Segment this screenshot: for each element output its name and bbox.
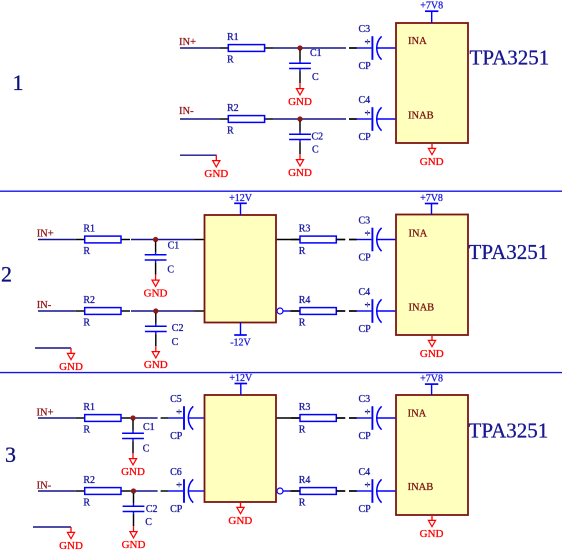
svg-text:IN+: IN+ — [37, 229, 54, 240]
svg-text:R1: R1 — [227, 32, 239, 43]
svg-text:IN-: IN- — [37, 481, 52, 492]
svg-text:R3: R3 — [299, 224, 311, 235]
svg-text:R1: R1 — [83, 224, 95, 235]
wire pin to C4 — [336, 490, 345, 492]
svg-text:TPA3251: TPA3251 — [469, 240, 549, 264]
svg-text:INAB: INAB — [409, 303, 435, 314]
wire IN- to R2 — [38, 310, 76, 312]
svg-text:R: R — [227, 55, 234, 66]
op-amp U1 TPA3251 — [396, 215, 468, 336]
capacitor C6 — [161, 467, 205, 515]
ground chip U1 — [420, 335, 444, 360]
svg-text:C: C — [143, 444, 150, 455]
svg-text:R4: R4 — [299, 295, 311, 306]
svg-text:CP: CP — [359, 431, 372, 442]
power +7V8 — [420, 374, 443, 395]
svg-text:C3: C3 — [359, 394, 371, 405]
capacitor C4 — [349, 467, 396, 515]
svg-text:GND: GND — [144, 359, 168, 371]
svg-text:C4: C4 — [359, 467, 371, 478]
pin buffer output A — [276, 417, 300, 419]
op-amp buffer U2 — [205, 215, 277, 323]
capacitor C4 — [349, 287, 396, 335]
svg-text:CP: CP — [359, 61, 372, 72]
ground input ground — [204, 155, 228, 180]
pin buffer input B — [195, 310, 205, 312]
svg-text:TPA3251: TPA3251 — [469, 418, 549, 442]
svg-text:GND: GND — [288, 167, 312, 179]
node IN+ filter junction — [297, 45, 302, 50]
power +12V — [229, 193, 253, 215]
svg-text:GND: GND — [122, 539, 146, 551]
op-amp U1 TPA3251 — [396, 395, 468, 515]
resistor R2 — [76, 295, 130, 329]
svg-text:GND: GND — [420, 156, 444, 168]
wire input ground stub — [180, 154, 217, 156]
ground under C1 — [121, 453, 145, 478]
svg-text:C3: C3 — [359, 216, 371, 227]
resistor R1 — [219, 32, 273, 66]
capacitor C4 — [349, 95, 396, 143]
svg-text:C4: C4 — [359, 95, 371, 106]
svg-text:CP: CP — [359, 504, 372, 515]
capacitor C2 — [123, 493, 158, 528]
svg-text:INAB: INAB — [408, 482, 434, 493]
svg-text:C: C — [312, 145, 319, 156]
ground input ground — [59, 527, 83, 551]
svg-text:C2: C2 — [146, 504, 158, 515]
wire IN+ to R1 — [38, 239, 76, 241]
ground under C2 — [288, 154, 312, 179]
wire pin to C4 — [336, 310, 345, 312]
svg-text:C: C — [312, 72, 319, 83]
svg-text:R2: R2 — [227, 103, 239, 114]
svg-text:INAB: INAB — [408, 110, 434, 121]
svg-text:C1: C1 — [168, 240, 180, 251]
svg-text:-12V: -12V — [230, 337, 251, 348]
svg-text:R2: R2 — [83, 295, 95, 306]
svg-text:IN-: IN- — [37, 300, 52, 311]
wire IN+ to R1 — [38, 417, 76, 419]
inverting output bubble — [277, 488, 283, 494]
svg-text:R: R — [299, 318, 306, 329]
pin buffer input A — [195, 239, 205, 241]
svg-text:C6: C6 — [170, 467, 182, 478]
svg-text:C: C — [167, 264, 174, 275]
svg-text:+12V: +12V — [229, 193, 253, 204]
inverting output bubble — [277, 308, 283, 314]
capacitor C1 — [289, 48, 322, 83]
svg-text:CP: CP — [359, 132, 372, 143]
wire R1 to C3 — [274, 47, 346, 49]
wire R2 to C6 — [130, 490, 158, 492]
svg-text:2: 2 — [1, 261, 12, 286]
op-amp buffer U2 — [205, 395, 277, 502]
wire pin to C3 — [336, 239, 345, 241]
capacitor C3 — [349, 216, 396, 264]
svg-text:CP: CP — [170, 431, 183, 442]
svg-text:GND: GND — [204, 168, 228, 180]
op-amp U1 TPA3251 — [396, 23, 468, 143]
capacitor C3 — [349, 24, 396, 72]
svg-text:INA: INA — [408, 36, 427, 47]
resistor R2 — [219, 103, 273, 137]
svg-text:+12V: +12V — [229, 373, 253, 384]
svg-text:+7V8: +7V8 — [420, 374, 443, 385]
divider line — [0, 372, 562, 374]
wire R2 to C4 — [274, 118, 346, 120]
ground chip U1 — [420, 143, 444, 168]
svg-text:R: R — [83, 318, 90, 329]
svg-text:1: 1 — [13, 70, 24, 95]
wire R1 to buffer — [131, 239, 195, 241]
svg-text:3: 3 — [5, 442, 16, 467]
ground buffer U2 — [228, 502, 252, 527]
svg-text:CP: CP — [359, 324, 372, 335]
pin buffer output B — [283, 490, 289, 492]
ground under C2 — [122, 526, 146, 551]
capacitor C1 — [145, 240, 180, 275]
node IN- filter junction — [153, 308, 158, 313]
svg-text:CP: CP — [359, 253, 372, 264]
svg-text:GND: GND — [144, 288, 168, 300]
power +7V8 — [420, 193, 443, 215]
wire input ground stub — [35, 347, 71, 349]
node IN- filter junction — [297, 116, 302, 121]
svg-text:R3: R3 — [299, 402, 311, 413]
node IN+ filter junction — [130, 415, 135, 420]
resistor R4 — [291, 475, 345, 509]
capacitor C2 — [289, 121, 323, 156]
resistor R3 — [291, 224, 345, 258]
node IN+ filter junction — [153, 237, 158, 242]
capacitor C1 — [122, 420, 155, 455]
svg-text:C: C — [145, 517, 152, 528]
pin buffer output B — [283, 310, 289, 312]
svg-text:IN+: IN+ — [179, 37, 196, 48]
svg-text:INA: INA — [408, 409, 427, 420]
resistor R3 — [291, 402, 345, 436]
svg-text:IN-: IN- — [179, 106, 194, 117]
resistor R1 — [76, 224, 130, 258]
svg-text:C4: C4 — [359, 287, 371, 298]
wire pin to C4 — [349, 118, 357, 120]
pin buffer output A — [276, 239, 300, 241]
power +7V8 — [420, 1, 443, 23]
capacitor C5 — [161, 394, 205, 442]
svg-text:R: R — [83, 425, 90, 436]
svg-text:GND: GND — [288, 96, 312, 108]
node IN- filter junction — [131, 488, 136, 493]
ground input ground — [59, 348, 83, 373]
svg-text:R4: R4 — [299, 475, 311, 486]
power -12V — [230, 323, 251, 349]
svg-text:GND: GND — [121, 466, 145, 478]
ground under C2 — [144, 346, 168, 371]
svg-text:R: R — [227, 126, 234, 137]
ground under C1 — [144, 275, 168, 300]
svg-text:R: R — [83, 246, 90, 257]
svg-text:GND: GND — [420, 348, 444, 360]
svg-text:CP: CP — [170, 504, 183, 515]
svg-text:C2: C2 — [172, 323, 184, 334]
wire R1 to C5 — [130, 417, 158, 419]
svg-text:C5: C5 — [170, 394, 182, 405]
svg-text:R: R — [299, 425, 306, 436]
svg-text:INA: INA — [409, 228, 428, 239]
svg-text:IN+: IN+ — [37, 408, 54, 419]
svg-text:GND: GND — [420, 528, 444, 540]
svg-text:R: R — [83, 498, 90, 509]
svg-text:C2: C2 — [312, 132, 324, 143]
svg-text:C3: C3 — [359, 24, 371, 35]
wire input ground stub — [33, 526, 71, 528]
svg-text:GND: GND — [228, 515, 252, 527]
ground chip U1 — [420, 515, 444, 540]
svg-text:GND: GND — [59, 540, 83, 551]
svg-text:C: C — [172, 337, 179, 348]
wire R2 to buffer — [131, 310, 195, 312]
power +12V — [229, 373, 253, 395]
capacitor C3 — [349, 394, 396, 442]
capacitor C2 — [145, 313, 184, 348]
svg-text:+7V8: +7V8 — [420, 1, 443, 12]
divider line — [0, 190, 562, 192]
svg-text:R2: R2 — [83, 475, 95, 486]
wire IN- to R2 — [180, 118, 219, 120]
wire pin to C3 — [349, 47, 357, 49]
svg-text:C1: C1 — [143, 422, 155, 433]
svg-text:R1: R1 — [83, 402, 95, 413]
wire IN- to R2 — [38, 490, 76, 492]
svg-text:+7V8: +7V8 — [420, 193, 443, 204]
svg-text:GND: GND — [59, 361, 83, 373]
wire pin to C3 — [336, 417, 345, 419]
resistor R2 — [76, 475, 130, 509]
svg-text:TPA3251: TPA3251 — [470, 46, 550, 70]
resistor R4 — [291, 295, 345, 329]
svg-text:R: R — [299, 498, 306, 509]
wire IN+ to R1 — [180, 47, 219, 49]
svg-text:C1: C1 — [310, 48, 322, 59]
ground under C1 — [288, 83, 312, 108]
svg-text:R: R — [299, 246, 306, 257]
resistor R1 — [76, 402, 130, 436]
